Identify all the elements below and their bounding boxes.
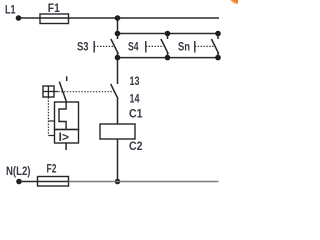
svg-text:13: 13	[130, 74, 140, 88]
svg-text:F1: F1	[48, 1, 60, 15]
svg-text:14: 14	[130, 92, 140, 106]
svg-text:C1: C1	[129, 106, 143, 120]
svg-text:S3: S3	[77, 40, 89, 54]
svg-text:Sn: Sn	[178, 40, 190, 54]
svg-text:S4: S4	[128, 40, 139, 54]
svg-text:I>: I>	[59, 130, 70, 144]
svg-text:L1: L1	[5, 2, 16, 16]
svg-text:N(L2): N(L2)	[6, 164, 31, 178]
svg-text:C2: C2	[129, 139, 143, 153]
svg-text:F2: F2	[47, 161, 57, 175]
